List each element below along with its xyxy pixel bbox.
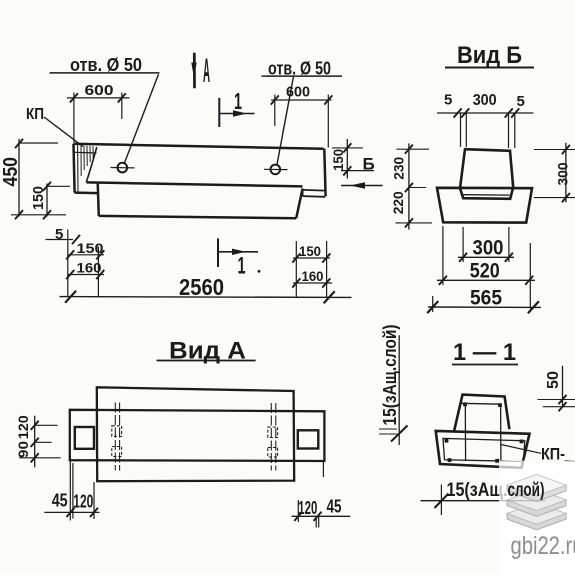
svg-text:15(зАщ.: 15(зАщ. xyxy=(447,480,508,501)
svg-text:50: 50 xyxy=(545,371,562,389)
svg-text:1: 1 xyxy=(234,88,242,114)
svg-text:565: 565 xyxy=(470,287,502,310)
svg-text:300: 300 xyxy=(555,162,571,185)
svg-text:160: 160 xyxy=(302,268,324,284)
svg-text:15(зАщ.слой): 15(зАщ.слой) xyxy=(380,325,400,426)
svg-text:слой): слой) xyxy=(508,480,545,501)
svg-text:150: 150 xyxy=(330,149,346,171)
svg-text:2560: 2560 xyxy=(179,274,224,300)
svg-text:120: 120 xyxy=(298,498,317,518)
svg-text:Вид А: Вид А xyxy=(169,338,246,365)
svg-text:300: 300 xyxy=(473,92,497,109)
svg-text:600: 600 xyxy=(85,82,114,99)
svg-text:160: 160 xyxy=(77,260,102,276)
svg-text:КП: КП xyxy=(26,106,44,123)
svg-text:Вид Б: Вид Б xyxy=(457,42,522,69)
svg-text:220: 220 xyxy=(390,191,406,214)
svg-text:1: 1 xyxy=(238,253,246,280)
svg-text:120: 120 xyxy=(73,492,93,512)
svg-text:600: 600 xyxy=(286,84,310,101)
svg-text:Б: Б xyxy=(363,155,375,174)
svg-text:45: 45 xyxy=(327,497,342,517)
svg-text:150: 150 xyxy=(299,243,321,259)
svg-text:450: 450 xyxy=(0,157,22,187)
svg-text:5: 5 xyxy=(517,93,525,110)
svg-text:отв. Ø 50: отв. Ø 50 xyxy=(70,55,142,75)
svg-text:150: 150 xyxy=(77,240,104,256)
svg-text:1 — 1: 1 — 1 xyxy=(453,339,516,366)
svg-text:5: 5 xyxy=(444,92,452,109)
svg-text:gbi22.ru: gbi22.ru xyxy=(511,532,575,560)
svg-text:520: 520 xyxy=(470,260,500,283)
svg-text:300: 300 xyxy=(473,237,504,260)
svg-text:5: 5 xyxy=(55,226,63,243)
svg-text:90: 90 xyxy=(15,441,31,458)
svg-text:150: 150 xyxy=(30,186,47,210)
svg-text:45: 45 xyxy=(52,491,68,511)
svg-text:120: 120 xyxy=(15,415,31,439)
svg-text:А: А xyxy=(203,52,210,90)
svg-text:230: 230 xyxy=(391,157,407,180)
svg-text:отв. Ø 50: отв. Ø 50 xyxy=(268,59,331,79)
